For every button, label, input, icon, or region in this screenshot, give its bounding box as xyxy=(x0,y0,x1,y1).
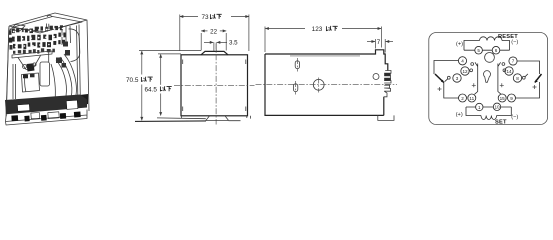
contact block speckle row 1 xyxy=(9,25,66,54)
svg-text:8: 8 xyxy=(516,76,519,81)
dim 7 arrows xyxy=(367,41,375,43)
coil cylinder xyxy=(69,29,80,62)
cover inner top edge xyxy=(13,17,83,32)
left armature xyxy=(435,74,444,83)
svg-text:64.5: 64.5 xyxy=(145,87,158,94)
svg-text:22: 22 xyxy=(210,28,217,35)
svg-text:(+): (+) xyxy=(456,112,463,118)
pin 6 xyxy=(492,46,500,54)
svg-text:70.5: 70.5 xyxy=(126,77,139,84)
pin 12 with contact xyxy=(461,67,469,75)
set coil xyxy=(481,116,497,120)
svg-text:7: 7 xyxy=(377,39,381,46)
pin 4 xyxy=(434,61,459,75)
armature funnel xyxy=(18,56,41,70)
latch slot xyxy=(214,42,216,51)
coil wires right xyxy=(56,60,66,96)
svg-text:(−): (−) xyxy=(511,114,518,120)
pin 7 xyxy=(517,61,540,74)
dim 64.5 line xyxy=(160,54,162,85)
reset coil loop xyxy=(464,41,510,51)
top latch tab xyxy=(10,25,25,31)
plus mark left outer xyxy=(438,87,442,91)
svg-text:(+): (+) xyxy=(456,42,463,48)
side notches xyxy=(183,60,246,112)
pin 15 xyxy=(498,94,506,102)
right corner block xyxy=(80,94,89,105)
pin 3 with contact xyxy=(453,74,461,82)
slot hole lower xyxy=(293,84,297,92)
svg-text:14: 14 xyxy=(506,69,512,74)
pin blades xyxy=(11,112,80,122)
spring left xyxy=(13,64,16,99)
center hole xyxy=(313,79,324,90)
dim 7 extension lines xyxy=(376,39,386,53)
lower terminal bar xyxy=(12,51,52,58)
horizontal centerline xyxy=(256,83,398,85)
dim 70.5 extension line xyxy=(139,50,201,52)
svg-text:10: 10 xyxy=(494,105,500,110)
top latch slot xyxy=(47,24,49,30)
relay cover outline xyxy=(6,13,89,117)
right clip detail xyxy=(384,71,391,97)
svg-text:1: 1 xyxy=(478,105,481,110)
base lower edge xyxy=(6,110,88,126)
mounting panel line xyxy=(157,118,241,121)
reset coil xyxy=(480,37,503,41)
bottom right foot xyxy=(378,115,394,120)
dim 73 extension lines xyxy=(180,15,249,52)
horizontal centerline xyxy=(174,84,255,86)
armature hook xyxy=(27,63,35,71)
socket outline xyxy=(429,33,548,125)
svg-text:(−): (−) xyxy=(511,40,518,46)
dim 22 extension lines xyxy=(201,33,226,51)
pin 14 with contact xyxy=(505,67,513,75)
relay base block xyxy=(5,95,87,115)
svg-text:9: 9 xyxy=(510,96,513,101)
dim 123 extension lines xyxy=(265,27,381,53)
dim 64.5 extension line xyxy=(158,53,181,55)
cover seam line xyxy=(290,55,360,57)
right armature xyxy=(535,74,542,83)
svg-text:2: 2 xyxy=(461,96,464,101)
svg-text:6: 6 xyxy=(495,48,498,53)
pin 5 xyxy=(475,46,483,54)
armature cup xyxy=(22,73,40,92)
pin 9 xyxy=(508,94,516,102)
contact screw dots xyxy=(13,28,64,48)
dim 70.5 line xyxy=(141,51,143,75)
pin 8 with contact xyxy=(513,74,521,82)
relay body outline side xyxy=(265,50,388,116)
svg-text:15: 15 xyxy=(500,96,506,101)
relay body outline front xyxy=(181,55,248,116)
slot hole upper xyxy=(295,61,299,69)
svg-text:73: 73 xyxy=(201,14,209,21)
cover right-front edge xyxy=(77,25,81,109)
svg-text:SET: SET xyxy=(495,119,507,125)
bottom tab xyxy=(206,116,229,121)
vertical centerline xyxy=(215,44,217,125)
dim 123 line xyxy=(265,28,305,30)
svg-text:123: 123 xyxy=(312,26,323,33)
plus mark left inner xyxy=(472,83,476,87)
svg-text:7: 7 xyxy=(512,59,515,64)
set coil loop xyxy=(466,107,511,116)
keyhole center xyxy=(484,71,491,83)
svg-text:12: 12 xyxy=(462,69,468,74)
svg-text:3.5: 3.5 xyxy=(229,40,238,47)
svg-text:5: 5 xyxy=(477,48,480,53)
plus mark right inner xyxy=(500,83,504,87)
pin 10 xyxy=(493,103,500,110)
coil terminal wires xyxy=(62,26,71,45)
latch circle xyxy=(373,74,379,80)
svg-text:3: 3 xyxy=(456,76,459,81)
dim 22 line xyxy=(201,30,207,32)
svg-text:4: 4 xyxy=(461,59,464,64)
bottom corner feet xyxy=(182,116,251,119)
plus mark right outer xyxy=(533,85,537,89)
base white cutouts xyxy=(17,100,77,119)
dim 73 line xyxy=(180,16,198,18)
top protrusion xyxy=(201,51,228,54)
pin 2 xyxy=(459,94,467,102)
mounting hole top xyxy=(485,53,495,63)
pin 1 xyxy=(476,103,483,110)
svg-text:11: 11 xyxy=(469,96,474,101)
pin 11 xyxy=(468,94,476,102)
terminal screws right xyxy=(56,42,70,68)
dim 3.5 arrows xyxy=(204,41,213,43)
